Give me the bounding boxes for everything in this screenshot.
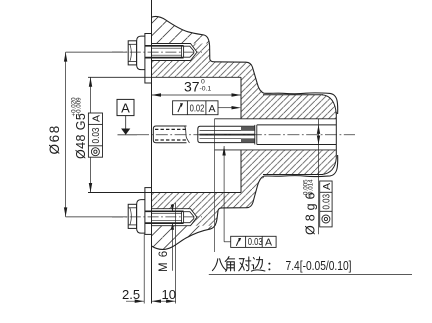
- svg-text:A: A: [121, 101, 130, 116]
- hatched body lower lobe below bottom bolt: [152, 226, 216, 250]
- octagon shaft stub in counterbore: [153, 126, 189, 143]
- svg-text:M 6: M 6: [158, 250, 170, 272]
- dim 37: [152, 94, 242, 96]
- right face: [335, 112, 337, 158]
- dim phi68 vertical: [66, 52, 127, 217]
- bottom bolt axis: [112, 216, 202, 218]
- svg-text:Ø68: Ø68: [47, 124, 62, 154]
- hex head: [128, 41, 136, 65]
- top bolt: [128, 34, 197, 84]
- svg-text:37: 37: [184, 79, 200, 95]
- screw shank: [145, 45, 184, 47]
- bottom dims 2.5 and 10: [126, 203, 176, 304]
- svg-text:-0.014: -0.014: [308, 179, 315, 197]
- svg-text:+0.009: +0.009: [75, 97, 82, 117]
- washer: [137, 36, 145, 70]
- dim phi48 vertical: [90, 77, 92, 192]
- FCF runout 0.03 A bottom with leader: [224, 146, 231, 242]
- svg-text:A: A: [91, 115, 103, 122]
- svg-text:0.03: 0.03: [91, 127, 102, 143]
- body face line: [151, 0, 153, 304]
- FCF concentricity right (vertical): [320, 181, 332, 227]
- top bolt axis: [112, 51, 202, 53]
- svg-text:2.5: 2.5: [122, 287, 140, 302]
- svg-text:0.02: 0.02: [190, 103, 205, 114]
- body outer contour top: [152, 16, 338, 114]
- CJK dui (pair): [239, 257, 251, 271]
- CJK bian (side): [251, 257, 265, 271]
- CJK ba (eight): [212, 259, 226, 271]
- svg-text:Ø48 G5: Ø48 G5: [74, 113, 88, 159]
- shaft knurled section in bore: [198, 125, 257, 145]
- hatched body upper main section: [152, 44, 337, 119]
- svg-text:7.4[-0.05/0.10]: 7.4[-0.05/0.10]: [286, 258, 352, 273]
- centerline main axis: [112, 52, 355, 217]
- tapped hole: [152, 44, 198, 61]
- hatched body lower main section: [152, 150, 337, 226]
- phi8 shaft section: [257, 124, 337, 126]
- CJK jiao (corner): [225, 257, 234, 272]
- boss bore lines: [215, 118, 337, 120]
- washer plate: [145, 34, 152, 84]
- svg-text:0.03: 0.03: [322, 194, 333, 210]
- svg-text:A: A: [209, 103, 216, 115]
- FCF concentricity left (vertical): [88, 113, 102, 157]
- counterbore phi48 edges: [88, 76, 241, 78]
- note: octagon across flats 7.4: [212, 257, 265, 272]
- dim phi8g6: [318, 119, 320, 234]
- svg-text:-0.1: -0.1: [200, 86, 212, 93]
- svg-text:A: A: [265, 237, 272, 249]
- svg-text:A: A: [321, 183, 333, 190]
- phi48 text rotated: [70, 97, 87, 159]
- M6 dimension: [171, 204, 173, 271]
- counterbore bottom face: [240, 77, 242, 119]
- datum A symbol: [117, 99, 134, 134]
- body outer contour bottom: [152, 155, 338, 249]
- recess end face + note extension line: [214, 119, 216, 252]
- bottom bolt: [128, 188, 197, 235]
- svg-text:10: 10: [162, 287, 176, 302]
- hatched body upper lobe above top bolt: [152, 16, 210, 43]
- svg-text:0.03: 0.03: [248, 237, 263, 248]
- svg-text:0: 0: [201, 79, 205, 86]
- band straight edges: [263, 94, 323, 96]
- screw tip: [184, 46, 194, 58]
- FCF runout 0.02 A with leader: [173, 101, 232, 115]
